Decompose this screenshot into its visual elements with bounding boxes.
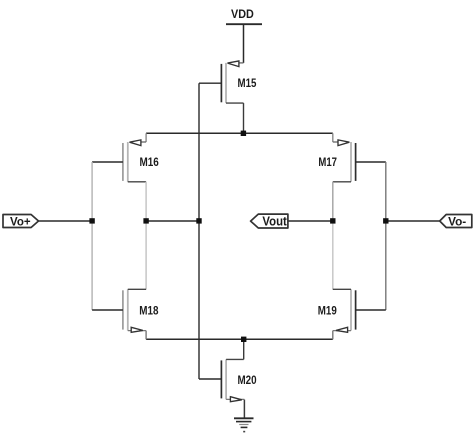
svg-text:M17: M17 — [318, 155, 337, 169]
svg-text:M15: M15 — [238, 76, 257, 90]
svg-text:VDD: VDD — [231, 7, 254, 21]
svg-text:M20: M20 — [238, 373, 257, 387]
svg-text:M18: M18 — [139, 304, 158, 318]
svg-text:Vout: Vout — [262, 215, 287, 229]
svg-text:Vo-: Vo- — [448, 215, 466, 229]
svg-text:M19: M19 — [318, 304, 337, 318]
svg-text:M16: M16 — [140, 155, 160, 169]
svg-text:Vo+: Vo+ — [10, 214, 31, 228]
